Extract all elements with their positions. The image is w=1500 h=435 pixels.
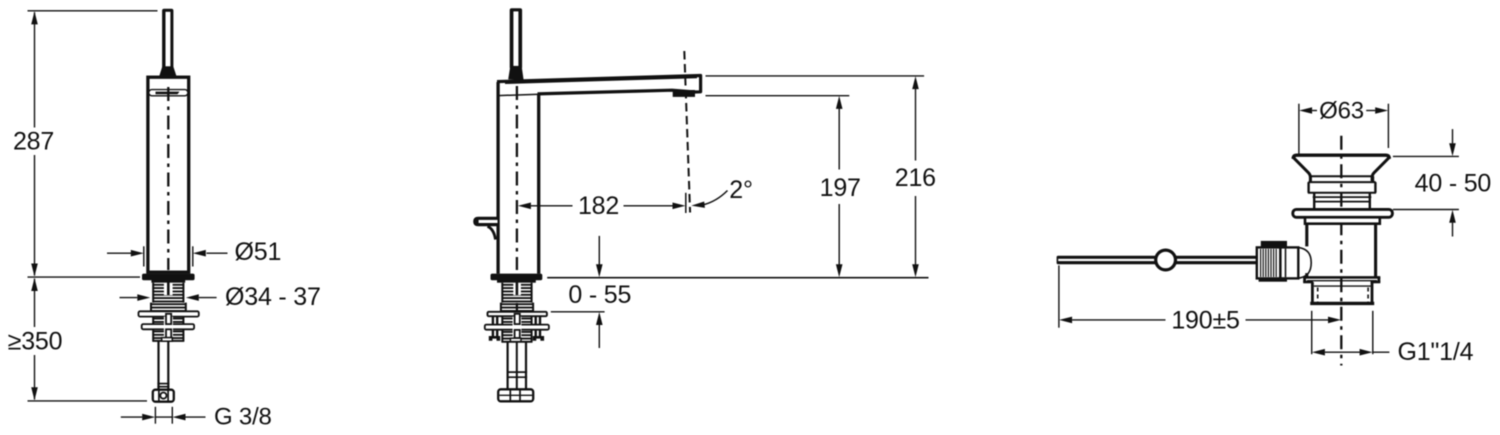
side view: body/spout joint line: [498, 90, 671, 96]
dimension diameter 51: arrows and leaders: [107, 250, 228, 257]
side view: spout outlet vertical reference line: [685, 193, 687, 213]
drain: ridge ring band: [1308, 182, 1376, 193]
drain: horizontal pop-up rod: [1057, 256, 1257, 264]
svg-text:≥350: ≥350: [8, 328, 63, 356]
side view: bracket feet: [489, 336, 544, 341]
side view: twin supply tubes: [507, 342, 528, 389]
front view: upper mounting washer: [139, 311, 199, 316]
front view: cartridge collar slot on body: [149, 90, 188, 96]
drain: flat top cap of plug: [1293, 155, 1389, 159]
drain: funnel left side: [1293, 158, 1310, 181]
front view: threaded shank lower section: [152, 329, 184, 341]
drain: vertical centerline: [1340, 136, 1342, 366]
dimension 197: vertical dimension line with arrows: [836, 96, 843, 277]
front view: threaded shank middle section: [152, 317, 184, 325]
svg-text:182: 182: [578, 192, 619, 220]
side view: upper mounting washer: [488, 312, 547, 316]
dimension diameter 63: dimension line with outward arrows: [1299, 107, 1388, 114]
dimension 216: extension line from spout top: [706, 75, 925, 77]
side view: vertical centerline of body: [516, 86, 518, 270]
front view: G3/8 hex coupling nut: [153, 390, 174, 402]
dimension >=350: vertical dimension line with arrows: [31, 278, 38, 400]
dimension G1 1/4: extension lines: [1312, 311, 1373, 354]
front view: faucet lever handle: [159, 9, 176, 76]
svg-text:287: 287: [13, 128, 54, 156]
dimension 287: top extension line: [28, 10, 158, 12]
drain: knurled rod coupling: [1257, 241, 1287, 282]
dimension 287: vertical dimension line with arrows: [31, 11, 38, 276]
dimension 287: lower extension line at base plate: [28, 276, 141, 278]
dimension 40-50: extension lines: [1393, 156, 1459, 209]
dimension 190 plus-minus 5: left extension line: [1058, 265, 1060, 327]
dimension G3/8: dimension line with arrows: [121, 414, 206, 421]
dimension 40-50: arrows outside pointing inward: [1449, 129, 1456, 236]
dimension G3/8: extension lines: [155, 407, 172, 424]
front view: faucet body: [148, 77, 189, 272]
drain: inlet boss bulge into body: [1298, 247, 1311, 278]
side view: G3/8 hex coupling nuts: [498, 389, 533, 401]
svg-text:216: 216: [895, 164, 936, 192]
svg-text:Ø34 - 37: Ø34 - 37: [225, 283, 321, 311]
drain: bottom collar step of body: [1303, 277, 1380, 282]
dimension 216: vertical dimension line with arrows: [912, 76, 919, 277]
dimension >=350: bottom extension line: [28, 400, 148, 402]
side view: mounting bracket legs: [493, 316, 540, 337]
front view: mounting nut: [142, 324, 194, 329]
drain: neck band with grooves: [1313, 193, 1372, 210]
svg-text:G 3/8: G 3/8: [214, 403, 272, 430]
dimension 190 plus-minus 5: dimension line with outward arrows: [1059, 317, 1341, 324]
side view: faucet body walls: [498, 82, 539, 274]
dimension diameter 34-37: arrows and leaders: [120, 294, 217, 301]
side view: base plate of faucet: [491, 274, 543, 283]
drain: funnel right side: [1372, 158, 1389, 181]
drain: main body: [1307, 224, 1376, 278]
dimension diameter 51: extension ticks: [144, 246, 193, 266]
svg-text:G1"1/4: G1"1/4: [1398, 338, 1474, 366]
front view: base plate of faucet: [142, 274, 195, 283]
svg-text:40 - 50: 40 - 50: [1415, 170, 1491, 198]
dimension 0-55: arrows outside pointing inward: [596, 236, 603, 348]
svg-text:0 - 55: 0 - 55: [568, 281, 631, 309]
side view: faucet lever handle: [508, 8, 523, 80]
dimension G1 1/4: dimension line with outward arrows: [1312, 349, 1390, 356]
side view: pop-up drain pull rod hook: [473, 217, 497, 240]
side view: threaded shank lower section: [502, 330, 533, 343]
drain: rod pivot ball: [1156, 250, 1176, 270]
front view: supply tube: [157, 341, 169, 389]
svg-text:Ø51: Ø51: [235, 238, 282, 266]
side view: threaded shank upper section: [500, 282, 534, 312]
front view: pop-up rod channel in shank: [164, 314, 173, 341]
drain: coupling sleeve cylinder: [1280, 247, 1298, 278]
side view: countertop reference line: [547, 277, 928, 279]
side view: spout (top edge, tip and aerator): [497, 76, 701, 97]
drain: threaded tailpiece G1 1/4: [1310, 282, 1374, 304]
svg-text:197: 197: [820, 174, 861, 202]
side view: outlet stream axis tilted 2 degrees: [684, 51, 690, 213]
dimension 0-55: lower extension line: [551, 311, 605, 313]
svg-text:2°: 2°: [729, 176, 753, 204]
drain: step ring below flange: [1305, 217, 1380, 223]
drain: sink flange: [1293, 209, 1393, 217]
svg-text:Ø63: Ø63: [1319, 98, 1364, 125]
dimension diameter 63: extension lines: [1299, 104, 1389, 156]
side view: pop-up rod channel in shank: [513, 314, 522, 342]
drain: upper cylinder band: [1311, 176, 1374, 182]
side view: mounting nut: [485, 325, 549, 330]
dimension 2 degrees: leader arc and arrow: [691, 191, 727, 208]
side view: threaded shank middle section: [502, 317, 533, 325]
svg-text:190±5: 190±5: [1171, 306, 1239, 334]
front view: slot at bottom of shank: [162, 338, 173, 342]
front view: vertical centerline of body: [167, 87, 169, 270]
side view: slot at bottom of shank: [510, 338, 521, 341]
dimension 182: dimension line with arrows: [518, 203, 686, 210]
dimension 197: extension line from aerator: [706, 95, 850, 97]
front view: threaded shank upper section: [150, 282, 186, 312]
